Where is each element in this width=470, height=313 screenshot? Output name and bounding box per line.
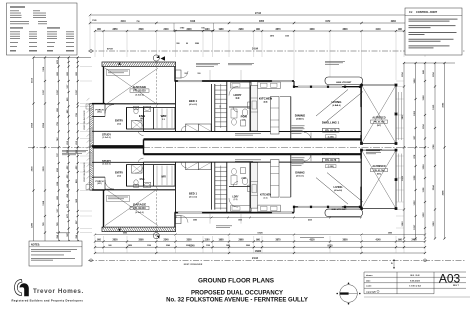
garage rear wall (92, 189, 175, 191)
svg-text:PROPOSED DUAL OCCUPANCY: PROPOSED DUAL OCCUPANCY (191, 290, 283, 296)
svg-text:3870: 3870 (270, 35, 274, 37)
svg-text:(N/C): (N/C) (97, 112, 102, 114)
robe band (186, 124, 199, 131)
svg-text:1980: 1980 (226, 245, 230, 247)
trevor homes logo (15, 280, 29, 297)
internal dim chain above bottom boundary (95, 234, 425, 236)
svg-text:5090: 5090 (123, 233, 127, 235)
bottom dimension chains (95, 241, 425, 243)
datum circle (153, 55, 159, 61)
bed1 west wall2 (211, 84, 213, 132)
svg-text:(3.2): (3.2) (140, 118, 144, 120)
svg-text:ALFRESCO: ALFRESCO (372, 165, 385, 168)
svg-text:WIR: WIR (161, 114, 168, 118)
svg-text:2340: 2340 (163, 238, 169, 241)
svg-text:3280: 3280 (32, 222, 34, 228)
svg-text:1057: 1057 (57, 89, 59, 95)
hall wall vertical (143, 107, 145, 132)
svg-text:2984: 2984 (391, 20, 397, 23)
svg-text:1034: 1034 (422, 164, 425, 170)
dining west wall (290, 154, 292, 197)
svg-text:1057: 1057 (43, 89, 45, 95)
alfresco (362, 150, 397, 209)
hall wall vertical (143, 162, 145, 187)
svg-text:LIVING: LIVING (334, 185, 343, 189)
svg-text:1950: 1950 (433, 104, 435, 110)
svg-text:2030: 2030 (32, 166, 34, 172)
shared front wall (92, 146, 144, 149)
ens fixtures (132, 121, 143, 130)
svg-text:6080 LTR RWT: 6080 LTR RWT (336, 82, 352, 84)
porch slab (94, 176, 105, 178)
svg-text:1786: 1786 (433, 144, 435, 150)
living diagonal band (316, 90, 348, 117)
svg-text:6080 LTR RWT: 6080 LTR RWT (331, 209, 347, 211)
svg-text:(3.2): (3.2) (117, 123, 121, 125)
stairs (214, 84, 216, 132)
north symbol (340, 285, 358, 303)
front wall living (step) (293, 207, 295, 213)
svg-text:1980: 1980 (218, 29, 224, 31)
dining west wall (290, 97, 292, 140)
svg-text:WIR: WIR (161, 177, 166, 179)
svg-text:3172: 3172 (325, 21, 331, 23)
porch top wall (92, 189, 105, 191)
svg-text:90: 90 (186, 43, 188, 45)
svg-text:24.94: 24.94 (252, 48, 259, 51)
svg-text:A03: A03 (439, 271, 461, 285)
svg-text:(4.9x3.1): (4.9x3.1) (296, 117, 304, 120)
datum circle (153, 233, 159, 239)
entry/study wall (92, 130, 144, 132)
bed1 west wall (175, 81, 177, 132)
svg-text:24.94: 24.94 (252, 257, 259, 260)
svg-text:GROUND FLOOR PLANS: GROUND FLOOR PLANS (198, 278, 275, 285)
svg-text:950: 950 (176, 43, 179, 45)
svg-text:FFL 91.010: FFL 91.010 (133, 207, 146, 210)
svg-text:16960: 16960 (255, 251, 262, 253)
svg-text:RL: RL (391, 263, 393, 265)
svg-text:Registered Builders and Pro: Registered Builders and Property Develop… (12, 299, 84, 303)
garage interior (105, 189, 158, 226)
kitchen bench (251, 86, 258, 132)
courtyard door arc on party wall (304, 154, 311, 161)
svg-text:NOTES:: NOTES: (31, 243, 40, 246)
svg-text:3116: 3116 (121, 21, 127, 23)
svg-text:(1.380): (1.380) (328, 136, 334, 138)
svg-text:REV 7: REV 7 (453, 285, 460, 287)
svg-text:FFL 91.704: FFL 91.704 (374, 121, 386, 124)
svg-text:PDR: PDR (241, 178, 246, 180)
svg-text:ENTRY: ENTRY (115, 172, 123, 175)
corridor wall (144, 161, 362, 163)
svg-text:B.K / S.E: B.K / S.E (410, 275, 420, 277)
svg-text:2960: 2960 (246, 245, 250, 247)
svg-text:FFL 91.010: FFL 91.010 (133, 90, 146, 93)
svg-text:27.94: 27.94 (255, 12, 262, 15)
living/alfresco wall (360, 150, 362, 207)
svg-text:(N/C): (N/C) (377, 125, 382, 127)
entry/study wall (92, 161, 144, 163)
garage door dims (173, 23, 175, 32)
svg-text:3055: 3055 (259, 21, 265, 23)
svg-text:1100: 1100 (205, 239, 211, 241)
entry door arc (105, 180, 114, 189)
ens/wir box (127, 108, 176, 130)
svg-text:CJ: CJ (409, 10, 413, 14)
svg-text:ENTRY: ENTRY (115, 120, 123, 123)
svg-text:4330: 4330 (309, 28, 315, 31)
annotation notes (196, 62, 220, 65)
svg-text:2960: 2960 (238, 239, 244, 241)
garage side walls (103, 190, 105, 227)
notes box (29, 241, 82, 266)
svg-text:2480: 2480 (411, 238, 417, 241)
porch top wall (92, 103, 105, 105)
svg-text:1100: 1100 (205, 29, 211, 31)
left wall window (study bay) (90, 128, 92, 141)
side gate arc (176, 70, 182, 78)
svg-text:3590: 3590 (138, 239, 144, 241)
pdr fixtures (242, 178, 248, 185)
garage front hatched wall (102, 227, 176, 232)
ldry/pdr (249, 81, 251, 132)
svg-text:1100: 1100 (285, 35, 289, 37)
robe band (186, 162, 199, 169)
front wall bed1/kitchen (175, 80, 295, 82)
svg-text:2850: 2850 (112, 239, 118, 241)
svg-text:EXIST. CROSSOVER: EXIST. CROSSOVER (184, 264, 203, 266)
svg-text:8240: 8240 (189, 244, 195, 247)
svg-text:900: 900 (108, 245, 111, 247)
svg-text:2162: 2162 (32, 77, 34, 83)
svg-text:scale: scale (366, 286, 372, 288)
left brick wall (90, 146, 93, 190)
svg-text:4330: 4330 (309, 238, 315, 241)
svg-text:3800: 3800 (342, 239, 348, 241)
steps right of alfresco (398, 92, 400, 140)
svg-text:(6.0x3.6): (6.0x3.6) (135, 94, 143, 96)
party wall south (144, 153, 362, 155)
svg-text:1128: 1128 (423, 187, 425, 193)
garage rear wall (92, 103, 175, 105)
left wall window (study bay) (90, 153, 92, 166)
DWELLING 2 geometry (mirrored) (86, 145, 402, 239)
svg-text:4330: 4330 (308, 219, 312, 222)
svg-text:ALFRESCO: ALFRESCO (372, 117, 385, 120)
top dimension chains (90, 14, 425, 16)
garage front hatched wall (102, 62, 176, 67)
kitchen bench (251, 163, 258, 209)
svg-text:BED 1: BED 1 (189, 192, 197, 196)
svg-text:1104: 1104 (401, 72, 404, 78)
svg-text:2058: 2058 (32, 122, 34, 128)
svg-text:1980: 1980 (218, 239, 224, 241)
rwt tank (325, 77, 363, 85)
svg-text:1104: 1104 (42, 66, 45, 72)
dim above table (393, 259, 395, 269)
rwt tank (325, 209, 363, 217)
svg-text:1100: 1100 (206, 245, 210, 247)
svg-text:KITCHEN: KITCHEN (260, 194, 271, 197)
svg-text:2340: 2340 (166, 244, 170, 247)
svg-text:3080: 3080 (193, 220, 197, 222)
ldry/pdr (249, 162, 251, 213)
svg-text:1104: 1104 (432, 72, 435, 78)
ens/wir box (127, 165, 176, 187)
shared front wall (92, 145, 144, 148)
svg-text:STUDY: STUDY (102, 159, 111, 163)
bed1 west wall2 (211, 162, 213, 210)
svg-text:3300: 3300 (186, 239, 192, 241)
svg-text:EXIST. PALING FENCE: EXIST. PALING FENCE (83, 162, 86, 182)
kitchen island bench (271, 160, 280, 198)
svg-text:(4.9x3.1): (4.9x3.1) (296, 174, 304, 177)
svg-text:Trevor Homes.: Trevor Homes. (33, 288, 84, 295)
svg-text:3870: 3870 (275, 29, 281, 31)
bed1 west wall (175, 162, 177, 213)
svg-text:910: 910 (198, 73, 201, 75)
dividing boundary centerline (28, 146, 430, 148)
svg-text:STUDY: STUDY (102, 132, 111, 136)
side gate arc (176, 216, 182, 224)
svg-text:3990: 3990 (388, 233, 392, 235)
garage side walls (103, 67, 105, 104)
boundary fence ticks left (87, 98, 90, 101)
svg-text:FFL 91.704: FFL 91.704 (374, 169, 386, 172)
living diagonal band (316, 178, 348, 205)
svg-text:DWELLING 1: DWELLING 1 (322, 121, 340, 125)
svg-text:1198: 1198 (43, 200, 45, 206)
left dimension chains (34, 57, 92, 59)
svg-text:GARAGE: GARAGE (133, 85, 146, 89)
svg-text:3962: 3962 (443, 102, 445, 108)
front wall living (step) (293, 81, 295, 87)
svg-text:3590: 3590 (138, 29, 144, 31)
svg-text:2044: 2044 (432, 185, 435, 191)
site boundary bottom (88, 259, 466, 261)
svg-text:(3.2x3.0): (3.2x3.0) (102, 137, 110, 139)
svg-text:1363: 1363 (402, 221, 404, 227)
svg-text:1222: 1222 (414, 200, 416, 206)
svg-text:(3.1): (3.1) (264, 197, 268, 199)
svg-text:drawn: drawn (366, 275, 373, 277)
control joint notes box (405, 8, 462, 55)
front wall bed1/kitchen (175, 212, 295, 214)
svg-text:1057: 1057 (414, 224, 416, 230)
legend box: building areas table (7, 3, 78, 55)
right dimension chains (404, 62, 455, 64)
interior door arcs (135, 165, 144, 174)
interior door arcs (135, 121, 144, 130)
svg-text:(3.1): (3.1) (264, 101, 268, 103)
party wall south (144, 138, 362, 140)
svg-text:FFL 91.76: FFL 91.76 (325, 129, 337, 132)
svg-text:(3.2): (3.2) (117, 175, 121, 177)
svg-text:1900: 1900 (238, 220, 242, 222)
pdr fixtures (242, 109, 248, 116)
svg-text:No. 32 FOLKSTONE AVENUE - FERN: No. 32 FOLKSTONE AVENUE - FERNTREE GULLY (166, 298, 308, 304)
svg-text:3416: 3416 (190, 20, 196, 23)
svg-text:(1.380): (1.380) (328, 166, 334, 168)
svg-text:2280: 2280 (195, 43, 199, 45)
svg-text:3870: 3870 (275, 239, 281, 241)
svg-text:2058: 2058 (43, 122, 45, 128)
svg-text:(4.1x3.2): (4.1x3.2) (189, 195, 197, 198)
kitchen island bench (271, 97, 280, 135)
svg-text:DWELLING 2: DWELLING 2 (322, 152, 340, 156)
svg-text:4286: 4286 (442, 190, 445, 196)
svg-text:(4.9x4.4): (4.9x4.4) (334, 189, 342, 192)
svg-text:1692: 1692 (414, 78, 416, 84)
svg-text:4140: 4140 (375, 238, 381, 241)
svg-text:EXIST. PALING FENCE: EXIST. PALING FENCE (83, 110, 86, 130)
svg-text:(6.0x3.6): (6.0x3.6) (135, 212, 143, 214)
svg-text:LDRY: LDRY (233, 93, 241, 97)
svg-text:date: date (366, 279, 371, 282)
svg-text:4140: 4140 (375, 28, 381, 31)
svg-text:LIVING: LIVING (331, 100, 342, 104)
svg-text:2030: 2030 (43, 166, 45, 172)
DWELLING 1 geometry (86, 55, 402, 149)
svg-text:2340: 2340 (163, 28, 169, 31)
svg-text:2850: 2850 (128, 245, 132, 247)
porch slab (94, 116, 105, 118)
site boundary top (88, 50, 466, 52)
svg-text:(4.9x4.4): (4.9x4.4) (332, 104, 340, 107)
stairs (214, 162, 216, 210)
alfresco (362, 85, 397, 144)
svg-text:(4.1x3.2): (4.1x3.2) (189, 103, 197, 106)
svg-text:8.06.2023: 8.06.2023 (410, 280, 421, 282)
living/alfresco wall (360, 87, 362, 144)
ens fixtures (132, 164, 143, 173)
svg-text:1104: 1104 (422, 124, 425, 130)
svg-text:3800: 3800 (342, 29, 348, 31)
svg-text:1363: 1363 (433, 221, 435, 227)
svg-text:DINING: DINING (295, 114, 306, 118)
svg-text:(N/C): (N/C) (377, 174, 382, 176)
svg-text:2857: 2857 (402, 114, 404, 120)
courtyard door arc on party wall (304, 132, 311, 139)
svg-text:copyright: copyright (366, 290, 376, 293)
svg-text:ENS: ENS (140, 179, 145, 181)
svg-text:2960: 2960 (238, 29, 244, 31)
svg-text:(3.2): (3.2) (234, 199, 238, 201)
svg-text:(3.2): (3.2) (236, 98, 240, 100)
svg-text:KITCHEN: KITCHEN (259, 97, 272, 101)
svg-text:FFL 91.76: FFL 91.76 (325, 159, 337, 162)
svg-text:(3.2x3.0): (3.2x3.0) (102, 164, 110, 166)
garage interior (105, 68, 158, 105)
svg-text:1222: 1222 (423, 212, 425, 218)
svg-text:90°00': 90°00' (107, 49, 114, 51)
svg-text:10920: 10920 (257, 233, 262, 235)
svg-text:2850: 2850 (112, 29, 118, 31)
svg-text:3300: 3300 (186, 29, 192, 31)
entry door arc (105, 105, 114, 114)
steps right of alfresco (398, 154, 400, 202)
title table (364, 271, 466, 273)
svg-text:CONTROL JOINT: CONTROL JOINT (416, 10, 438, 14)
svg-text:1598: 1598 (423, 95, 425, 101)
svg-text:9120: 9120 (327, 245, 333, 247)
svg-text:1100: 1100 (147, 245, 151, 247)
svg-text:PDR: PDR (241, 115, 248, 119)
svg-text:1363: 1363 (414, 110, 416, 116)
svg-text:1:100 @ A3: 1:100 @ A3 (409, 285, 421, 288)
svg-text:1128: 1128 (414, 175, 416, 181)
corridor wall (144, 131, 362, 133)
svg-text:(N/C): (N/C) (97, 183, 102, 185)
left brick wall (90, 104, 93, 148)
svg-text:DINING: DINING (295, 171, 304, 175)
svg-text:BED 1: BED 1 (189, 99, 197, 103)
svg-text:1057: 1057 (76, 89, 78, 95)
svg-text:GARAGE: GARAGE (133, 203, 146, 207)
